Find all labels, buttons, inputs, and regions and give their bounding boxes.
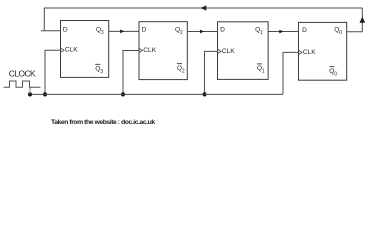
arrow: upward signal-flow arrow on feedback riser [360, 17, 366, 23]
U4 output label Q0-bar [329, 67, 337, 78]
wire: Q3 to D of U2 [109, 30, 139, 32]
junction dot: U1 clock tap [43, 92, 47, 96]
D flip-flop U4 body (Q0 stage) [299, 22, 347, 80]
junction dot: U2 clock tap [121, 92, 125, 96]
U1 clock chevron [61, 48, 64, 52]
svg-text:0: 0 [334, 71, 337, 77]
svg-text:3: 3 [101, 30, 104, 36]
svg-text:D: D [220, 27, 225, 34]
svg-text:3: 3 [100, 69, 103, 75]
svg-text:CLK: CLK [222, 48, 235, 55]
wire: top feedback rail (Q0 back to D of U1) [44, 7, 362, 9]
svg-text:CLK: CLK [303, 49, 316, 56]
arrow: leftward signal-flow arrow on top rail [201, 5, 207, 10]
arrow: on wire Q3 to D2 [120, 30, 124, 34]
svg-text:1: 1 [260, 30, 263, 36]
svg-text:0: 0 [339, 30, 342, 36]
wire: CLK riser of U1 from clock rail [45, 50, 61, 94]
svg-text:2: 2 [182, 68, 185, 74]
wire: clock source drop to rail [29, 87, 31, 94]
wire: feedback left drop into D input of U1 [41, 8, 61, 31]
D flip-flop U1 body (Q3 stage) [61, 21, 109, 78]
U3 clock chevron [218, 49, 221, 53]
svg-text:2: 2 [180, 30, 183, 36]
junction dot: clock source tap [28, 92, 32, 96]
svg-text:D: D [302, 27, 307, 34]
wire: CLK riser of U4 at end of clock rail [283, 52, 299, 94]
svg-text:Taken from the website : doc.i: Taken from the website : doc.ic.ac.uk [51, 119, 155, 126]
U4 clock chevron [299, 50, 302, 54]
svg-text:1: 1 [262, 68, 265, 74]
arrow: on wire Q1 to D4 [279, 30, 283, 34]
U2 output label Q2-bar [177, 64, 185, 75]
svg-text:CLK: CLK [65, 47, 78, 54]
U2 clock chevron [139, 49, 142, 53]
wire: Q0 output up to top rail [347, 8, 363, 32]
wire: Q1 to D of U4 [268, 31, 298, 33]
svg-text:D: D [63, 26, 68, 33]
clock source waveform symbol [4, 81, 41, 87]
wire: CLK riser of U2 from clock rail [123, 51, 139, 95]
D flip-flop U3 body (Q1 stage) [218, 22, 269, 80]
junction dot: U3 clock tap [202, 92, 206, 96]
D flip-flop U2 body (Q2 stage) [139, 22, 187, 80]
wire: clock distribution rail [30, 93, 283, 95]
svg-text:CLK: CLK [143, 47, 156, 54]
svg-text:CLOCK: CLOCK [9, 69, 36, 79]
arrow: on wire Q2 to D3 [200, 30, 204, 34]
wire: Q2 to D of U3 [187, 31, 217, 33]
svg-text:D: D [142, 27, 147, 34]
U3 output label Q1-bar [257, 64, 265, 75]
U1 output label Q3-bar [95, 64, 103, 75]
wire: CLK riser of U3 from clock rail [205, 51, 218, 94]
